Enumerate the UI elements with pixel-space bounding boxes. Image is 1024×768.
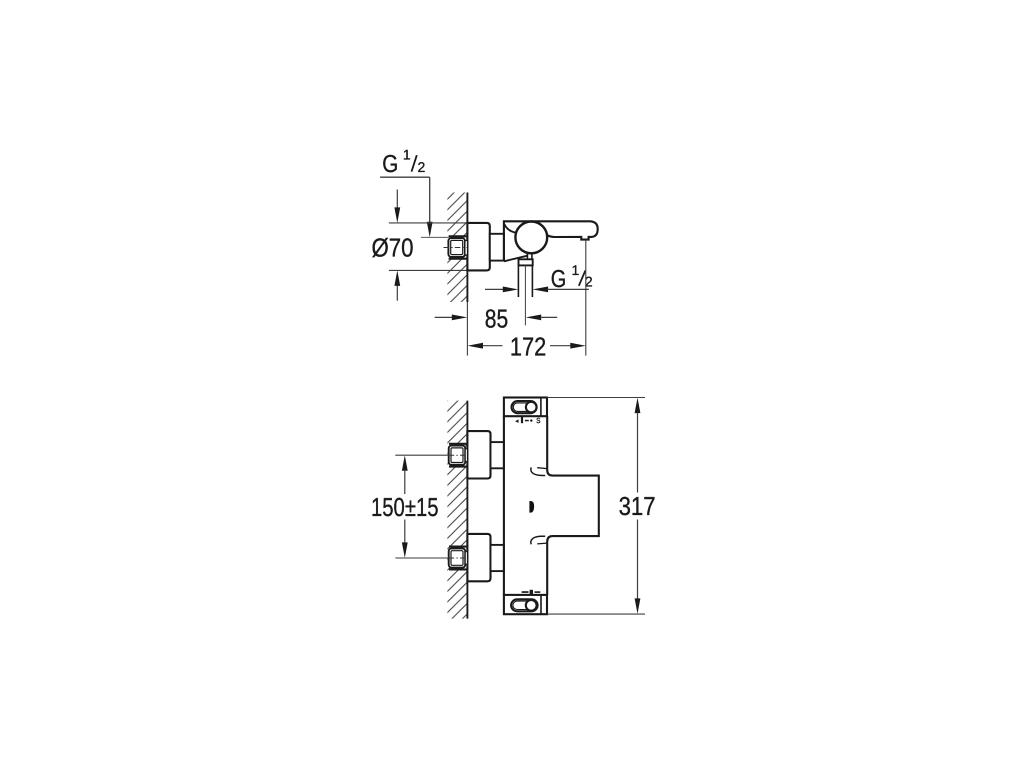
handle ball (circle): [515, 222, 547, 254]
wall face line (bottom drawing): [466, 401, 468, 619]
upper transition tick: [537, 467, 547, 470]
dimension 317: [635, 398, 641, 414]
svg-text:150±15: 150±15: [371, 492, 439, 522]
lower transition tick: [537, 542, 547, 545]
top handle pill: [512, 401, 537, 413]
dimension 150±15 extension lines: [395, 454, 448, 456]
connecting pipe (top drawing): [490, 234, 504, 261]
svg-text:1: 1: [403, 146, 411, 162]
svg-text:317: 317: [619, 491, 656, 521]
svg-text:S: S: [536, 416, 540, 425]
dimension 85: [435, 316, 453, 318]
lower union nut: [449, 548, 466, 567]
union nut (top drawing): [448, 238, 465, 257]
svg-text:172: 172: [510, 331, 546, 361]
bottom handle knob circle: [526, 600, 537, 611]
svg-text:G: G: [382, 151, 398, 178]
bottom cap (handle housing): [504, 595, 547, 614]
leader line for G1/2 wall connection: [380, 176, 430, 178]
top cap (handle housing): [504, 398, 547, 417]
svg-text:1: 1: [572, 262, 580, 278]
icon row above bottom cap: [522, 590, 541, 595]
upper connecting pipe: [491, 442, 504, 468]
wall face extension line: [466, 302, 468, 356]
upper union bands: [449, 443, 467, 445]
union bands (wall fitting, top drawing): [449, 235, 468, 237]
shower hose lines: [517, 265, 519, 297]
wall hatching (top drawing): [447, 193, 467, 303]
thermostat body column: [503, 416, 505, 595]
svg-text:2: 2: [418, 159, 426, 175]
lower connecting pipe: [491, 545, 504, 571]
union extension line: [421, 236, 449, 238]
hose connection nut: [519, 259, 533, 265]
icon row below top cap: [515, 416, 540, 425]
top handle knob circle: [526, 402, 537, 413]
upper centerline: [449, 454, 467, 456]
G1/2 hose dimension arrows: [485, 288, 504, 290]
body bottom slant edge: [504, 256, 528, 262]
dimension text G1/2 (wall connection): [382, 146, 425, 178]
bottom handle pill: [511, 599, 537, 611]
upper washer: [465, 449, 467, 462]
dimension 172: [468, 343, 484, 349]
wall face line (top drawing): [466, 193, 468, 303]
lower washer: [465, 552, 467, 565]
dimension 150±15: [402, 455, 408, 471]
centerline through nut (top drawing): [444, 247, 467, 249]
lower union bands: [449, 546, 467, 548]
body shoulder curve: [504, 224, 516, 233]
lower centerline: [449, 557, 467, 559]
dimension Ø70 arrows: [396, 190, 398, 209]
upper union nut: [449, 446, 466, 465]
escutcheon (top drawing): [467, 223, 489, 271]
svg-text:Ø70: Ø70: [372, 233, 414, 263]
hose centerline extension: [524, 265, 526, 325]
upper escutcheon: [467, 431, 490, 478]
button mark on body center: [529, 501, 534, 513]
spout end extension line: [585, 240, 587, 356]
neck lines below handle ball: [526, 253, 528, 260]
dimension text G1/2 (hose connection): [551, 262, 593, 293]
svg-text:G: G: [551, 266, 567, 293]
dimension Ø70 extension lines: [389, 222, 468, 224]
svg-text:85: 85: [485, 303, 508, 333]
washer (top drawing): [465, 240, 468, 255]
mixer body and spout outline: [504, 221, 598, 261]
lower transition claw curve: [531, 536, 545, 544]
upper transition claw curve: [531, 467, 545, 475]
wall hatching (bottom drawing): [447, 401, 467, 619]
lower escutcheon: [467, 534, 490, 581]
dimension 317 extension lines: [547, 397, 645, 399]
